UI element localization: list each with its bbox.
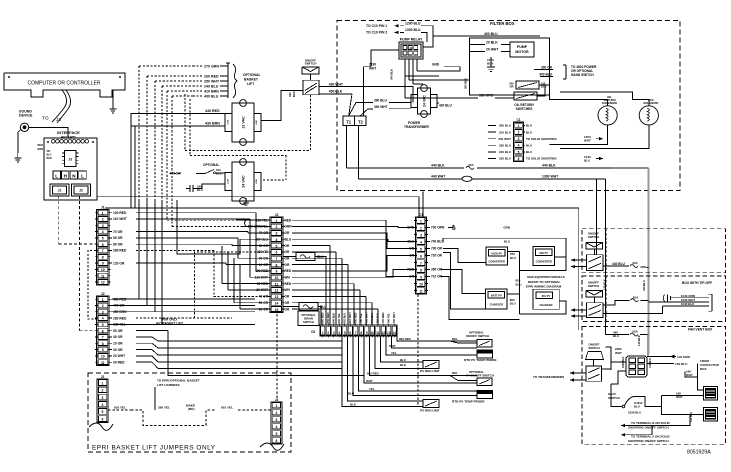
wires T1 T2 down to 440 rows: [347, 126, 359, 179]
svg-text:11: 11: [275, 282, 279, 286]
arrow terminal B: [621, 424, 652, 427]
svg-text:9: 9: [366, 331, 368, 335]
svg-text:9: 9: [102, 348, 104, 352]
svg-text:J2: J2: [101, 292, 105, 296]
svg-text:740 BLU: 740 BLU: [431, 240, 444, 244]
label OIL RETURN SWITCHES: [514, 103, 534, 111]
note TO EPRI OPTIONAL BASKET LIFT HARNESS: [157, 379, 200, 387]
svg-text:LIFT: LIFT: [247, 82, 255, 86]
bracket right of 1040 labels: [708, 294, 712, 311]
C1 mid right labels: [427, 226, 445, 279]
on/off switch 1 trapezoid: [586, 243, 603, 250]
optional drain switch label box: [298, 311, 319, 326]
connector C1 filter box: [514, 118, 524, 162]
svg-text:8: 8: [102, 255, 104, 259]
svg-text:REFER TO OPTIONAL: REFER TO OPTIONAL: [528, 280, 561, 284]
arrow to converter row1 a: [571, 258, 575, 261]
svg-text:90 OR: 90 OR: [113, 236, 123, 240]
terminal T2: [355, 116, 367, 126]
breaker 20A filter: [466, 163, 475, 169]
svg-text:GND: GND: [432, 63, 440, 67]
arrow 1240 BLU: [596, 157, 603, 160]
wire 400 BLU top: [433, 32, 540, 42]
svg-text:FAN VENT BOX: FAN VENT BOX: [688, 328, 713, 332]
wire 440 BLK with breaker: [347, 163, 613, 168]
plug connector 2: [704, 408, 718, 422]
wires to solenoids: [550, 85, 649, 149]
svg-text:8: 8: [276, 263, 278, 267]
svg-text:TO C10 PIN 2: TO C10 PIN 2: [366, 31, 387, 35]
labels RED GRN left of board: [37, 143, 52, 160]
svg-text:710 OR: 710 OR: [431, 275, 443, 279]
svg-text:CHARGER: CHARGER: [539, 303, 552, 307]
optional switch lower label: [466, 370, 494, 378]
svg-text:1: 1: [102, 381, 104, 385]
svg-text:10 OR: 10 OR: [113, 341, 123, 345]
svg-text:5: 5: [276, 244, 278, 248]
svg-text:BLU: BLU: [634, 404, 640, 408]
svg-text:2: 2: [420, 227, 422, 231]
switch 3 contact: [586, 366, 602, 381]
svg-text:340 BLK: 340 BLK: [390, 69, 394, 80]
svg-text:260 RED: 260 RED: [204, 74, 219, 78]
svg-text:10: 10: [419, 283, 423, 287]
wire bundle J2 lower to rtd cluster: [136, 331, 364, 376]
svg-text:440 BLU: 440 BLU: [642, 280, 646, 291]
svg-text:BLU: BLU: [285, 237, 292, 241]
converter box 800 pv: [533, 247, 555, 266]
arrow 140 GRN: [670, 355, 676, 359]
svg-text:7: 7: [102, 249, 104, 253]
svg-text:C10: C10: [408, 46, 413, 50]
wires converter row1 loop: [443, 238, 566, 270]
svg-text:11: 11: [419, 290, 423, 294]
svg-text:9: 9: [420, 276, 422, 280]
svg-text:6: 6: [518, 157, 520, 161]
svg-text:15: 15: [275, 308, 279, 312]
label 870 BLU: [510, 252, 516, 260]
label 180 WHT: [676, 391, 683, 399]
svg-text:240 BLU: 240 BLU: [499, 150, 511, 154]
svg-text:3: 3: [102, 396, 104, 400]
svg-text:BLU: BLU: [504, 240, 510, 244]
svg-text:TRANSFORMER: TRANSFORMER: [404, 125, 429, 129]
label TO C10 PIN 2: [366, 31, 387, 35]
svg-text:7: 7: [420, 262, 422, 266]
dashed vertical below C1 mid: [417, 295, 419, 407]
svg-text:1300 BLU: 1300 BLU: [405, 28, 421, 32]
breaker 20A fan: [630, 330, 639, 336]
svg-text:130 BLK: 130 BLK: [649, 358, 652, 368]
fan contactor block: [626, 356, 647, 377]
svg-text:2: 2: [102, 218, 104, 222]
svg-text:WHT: WHT: [584, 139, 591, 143]
wire feeder y207 to switch chain: [254, 208, 579, 330]
svg-text:MOTOR: MOTOR: [515, 50, 529, 54]
svg-text:2: 2: [276, 411, 278, 415]
svg-text:1: 1: [102, 211, 104, 215]
svg-text:11: 11: [101, 361, 105, 365]
svg-text:SWITCH: SWITCH: [588, 346, 599, 350]
svg-text:40 OR: 40 OR: [113, 335, 123, 339]
wire arrow row2 a: [571, 309, 587, 311]
svg-text:1: 1: [276, 219, 278, 223]
svg-text:7: 7: [355, 331, 357, 335]
gray bus wire: [647, 168, 649, 354]
svg-text:CONVERTER: CONVERTER: [489, 260, 505, 264]
inline connector 440 WHT: [462, 176, 472, 181]
svg-text:280 RED: 280 RED: [113, 316, 127, 320]
svg-text:J4: J4: [275, 213, 279, 217]
svg-text:13: 13: [387, 331, 391, 335]
C6 vertical pin labels: [320, 312, 396, 324]
svg-text:801 PV: 801 PV: [542, 294, 551, 298]
svg-text:6: 6: [420, 255, 422, 259]
label 1290 BLU: [400, 22, 433, 43]
C1 left wire labels: [488, 124, 511, 161]
connector J2 on board: [72, 184, 91, 196]
wires filter box into C1 top: [419, 191, 423, 217]
svg-text:270 GRN: 270 GRN: [204, 64, 219, 68]
svg-text:EPRI BASKET LIFT JUMPERS O: EPRI BASKET LIFT JUMPERS ONLY: [92, 445, 216, 452]
svg-text:5: 5: [420, 248, 422, 252]
svg-text:510 BLK: 510 BLK: [690, 412, 693, 422]
fuse breaker box lower: [283, 303, 327, 326]
inner dashed divider box2: [605, 276, 607, 322]
svg-text:10: 10: [370, 331, 374, 335]
label 20 WHT: [470, 48, 511, 52]
svg-text:RED: RED: [285, 282, 292, 286]
svg-text:1: 1: [518, 124, 520, 128]
svg-text:BLK: BLK: [400, 363, 407, 367]
svg-text:4: 4: [518, 144, 520, 148]
svg-text:RED: RED: [285, 218, 292, 222]
svg-text:800 RED: 800 RED: [353, 313, 357, 324]
svg-text:20 BLK: 20 BLK: [486, 40, 498, 44]
svg-text:TO TRANSFORMERS: TO TRANSFORMERS: [533, 375, 564, 379]
long wire across top y207 left part: [105, 207, 254, 209]
svg-text:BATT PV: BATT PV: [491, 294, 502, 298]
svg-text:380 YEL: 380 YEL: [158, 406, 170, 410]
svg-text:5: 5: [276, 432, 278, 436]
svg-text:860 RED: 860 RED: [320, 313, 324, 324]
J2 pin wire labels: [109, 297, 127, 364]
svg-text:11: 11: [101, 274, 105, 278]
svg-text:LINE: LINE: [256, 179, 258, 184]
svg-text:J2: J2: [79, 189, 83, 193]
svg-text:SWITCH: SWITCH: [303, 320, 314, 324]
svg-text:RED: RED: [38, 143, 44, 147]
svg-text:150 BLU: 150 BLU: [675, 362, 688, 366]
svg-text:120 OR: 120 OR: [113, 261, 125, 265]
svg-text:SOLENOID: SOLENOID: [643, 101, 658, 105]
svg-text:PUMP: PUMP: [517, 45, 528, 49]
switch 2 contact: [587, 303, 603, 318]
solid wire bundle to transformers: [131, 114, 225, 208]
box with tip-off dashed enclosure: [582, 276, 725, 322]
arrow to transformers b: [570, 378, 586, 381]
svg-text:OR: OR: [285, 301, 290, 305]
svg-text:420 BLU: 420 BLU: [439, 104, 452, 108]
epri jumper dashed wire: [108, 404, 271, 426]
svg-text:790 YEL: 790 YEL: [359, 313, 363, 324]
svg-text:4: 4: [338, 331, 340, 335]
C1 labels GRN mid: [503, 226, 510, 244]
arrow row2 b: [571, 314, 575, 317]
connector J4 epri: [271, 398, 282, 444]
svg-text:240 BLU: 240 BLU: [204, 84, 219, 88]
label 390 WHT: [374, 105, 411, 109]
wire 440 blu with breaker top fan box: [605, 331, 648, 339]
svg-text:12 VAC: 12 VAC: [241, 116, 245, 129]
svg-text:380 ORG: 380 ORG: [479, 94, 494, 98]
on/off switch 1 label: [588, 232, 599, 240]
svg-text:330 BLU: 330 BLU: [499, 144, 511, 148]
wire trapezoid to contact 2: [594, 297, 596, 303]
svg-text:750 RED: 750 RED: [381, 313, 385, 324]
svg-text:OR: OR: [285, 231, 290, 235]
svg-text:J4: J4: [275, 398, 279, 402]
connector J1 main harness: [95, 205, 111, 285]
label 820 BLU mid: [516, 279, 522, 287]
svg-text:400 BLU: 400 BLU: [539, 73, 552, 77]
svg-text:860 RED: 860 RED: [367, 371, 379, 375]
svg-text:400 BLU: 400 BLU: [484, 32, 498, 36]
svg-text:280 RED: 280 RED: [113, 249, 127, 253]
svg-text:810 WHT: 810 WHT: [348, 312, 352, 324]
svg-text:CHARGER: CHARGER: [490, 303, 503, 307]
transformer 24 VAC optional basket lift: [225, 159, 261, 205]
note FROM CONTACTOR BOX: [700, 359, 720, 371]
wires switch to T1 T2: [261, 74, 413, 121]
wires pump relay: [371, 42, 470, 98]
on/off switch 3: [586, 343, 604, 360]
charger box batt pv: [486, 289, 508, 309]
end cap 730 ORN: [448, 225, 455, 230]
svg-text:6: 6: [276, 251, 278, 255]
svg-text:RTD PV TEMP PROBE: RTD PV TEMP PROBE: [464, 358, 497, 362]
svg-text:J1: J1: [58, 189, 62, 193]
svg-text:100 RED: 100 RED: [113, 211, 127, 215]
svg-text:GRN: GRN: [503, 226, 510, 230]
svg-text:L: L: [55, 173, 58, 178]
wires contactor left: [611, 362, 626, 384]
svg-text:SHORTING ON/OFF SWITCH: SHORTING ON/OFF SWITCH: [628, 439, 669, 443]
svg-text:OR: OR: [285, 263, 290, 267]
pump motor: [510, 42, 534, 57]
svg-text:3: 3: [276, 418, 278, 422]
svg-text:7: 7: [276, 257, 278, 261]
svg-text:OR: OR: [285, 256, 290, 260]
pump motor inner box: [470, 38, 550, 95]
terminal T1: [343, 116, 355, 126]
wire bundle J4 to C1 and C6: [292, 220, 416, 325]
svg-text:20 WHT: 20 WHT: [486, 48, 499, 52]
svg-text:8: 8: [102, 342, 104, 346]
svg-text:SWITCH: SWITCH: [588, 284, 599, 288]
svg-text:TO: TO: [42, 116, 49, 122]
svg-text:FILTER BOX: FILTER BOX: [490, 21, 515, 26]
svg-text:2: 2: [327, 331, 329, 335]
svg-text:LIFT HARNESS: LIFT HARNESS: [157, 383, 180, 387]
connector J4 mid: [268, 213, 284, 312]
svg-text:110 WHT: 110 WHT: [113, 217, 127, 221]
svg-text:BLU: BLU: [526, 144, 532, 148]
terminal blocks L H N L: [53, 171, 86, 179]
svg-text:BLU: BLU: [516, 282, 522, 286]
svg-text:HAND SWITCH: HAND SWITCH: [571, 73, 594, 77]
oil return switch 1: [509, 81, 546, 89]
wire 2190 to down: [363, 67, 371, 116]
svg-text:TO C10 PIN 1: TO C10 PIN 1: [366, 24, 387, 28]
on/off switch 2 trapezoid: [586, 291, 603, 298]
ground under sound device: [14, 153, 21, 162]
ground symbol right of controller: [110, 104, 117, 113]
svg-text:440 BLK: 440 BLK: [431, 163, 445, 167]
svg-text:LINE: LINE: [256, 120, 258, 125]
wire 440 wht feeder down: [604, 179, 606, 335]
wires switch3: [594, 347, 612, 369]
svg-text:850 RED: 850 RED: [326, 313, 330, 324]
svg-text:BLU: BLU: [526, 150, 532, 154]
svg-text:11: 11: [376, 331, 380, 335]
wire contact2 lower loop: [603, 306, 663, 314]
svg-text:9: 9: [102, 262, 104, 266]
svg-text:ON/OFF SWITCH: ON/OFF SWITCH: [466, 334, 489, 338]
svg-text:3: 3: [420, 234, 422, 238]
diagonal wire into J4 pin1: [236, 219, 270, 221]
label 420 BLU: [437, 103, 452, 108]
svg-text:OPTIONAL: OPTIONAL: [243, 73, 261, 77]
svg-text:820 BLU: 820 BLU: [342, 313, 346, 324]
svg-text:3: 3: [102, 224, 104, 228]
connector J1 on board: [50, 184, 69, 196]
svg-text:BLK: BLK: [350, 402, 357, 406]
wire epri note down: [154, 387, 156, 410]
wire 440 WHT: [359, 174, 606, 179]
svg-text:760 BLK: 760 BLK: [375, 313, 379, 324]
svg-text:BLU: BLU: [400, 358, 406, 362]
wire 24vac transformer ground down: [243, 198, 249, 205]
svg-text:6: 6: [102, 417, 104, 421]
svg-text:230 BLU: 230 BLU: [499, 157, 511, 161]
arrow to C10 pin 1: [395, 24, 399, 27]
label 20 BLK: [470, 40, 511, 44]
svg-text:860 RED: 860 RED: [399, 337, 411, 341]
svg-text:WHT: WHT: [615, 351, 622, 355]
label 1300 BLU: [400, 28, 427, 42]
svg-text:WHT: WHT: [686, 373, 693, 377]
svg-text:SHORTING ON/OFF SWITCH: SHORTING ON/OFF SWITCH: [628, 425, 669, 429]
label G4312 BLU: [634, 401, 643, 408]
label 2190 WHT: [369, 63, 376, 71]
wires to plugs: [652, 396, 704, 426]
svg-text:350 OR: 350 OR: [431, 268, 443, 272]
label TO C10 PIN 1: [366, 24, 387, 28]
arrow to C10 pin 2: [395, 31, 399, 34]
svg-text:14: 14: [392, 331, 396, 335]
svg-text:50 OR: 50 OR: [113, 329, 123, 333]
svg-text:DEVICE: DEVICE: [19, 114, 33, 118]
svg-text:WHT: WHT: [389, 344, 396, 348]
sound device circle: [20, 123, 28, 131]
svg-text:(BK): (BK): [188, 407, 195, 411]
svg-text:SWITCH: SWITCH: [588, 235, 599, 239]
svg-text:4: 4: [276, 238, 278, 242]
svg-text:A/C BASKET LIFT: A/C BASKET LIFT: [156, 322, 183, 326]
svg-text:BLU: BLU: [584, 158, 590, 162]
svg-text:SWITCHES: SWITCHES: [516, 107, 533, 111]
svg-text:430 WHT: 430 WHT: [329, 82, 344, 86]
dashed vertical J4 epri to J4 mid: [276, 314, 278, 400]
rtd probe head upper: [477, 350, 493, 358]
arrow terminal A: [621, 433, 652, 436]
svg-text:830 YEL: 830 YEL: [337, 313, 341, 324]
dashed routing under 12vac transformer: [185, 94, 311, 180]
wavy break J4 epri: [260, 443, 284, 450]
svg-text:6: 6: [102, 243, 104, 247]
svg-text:TO SOLID SHORTING: TO SOLID SHORTING: [526, 137, 557, 141]
C1 mid left labels: [407, 226, 415, 279]
svg-text:WH: WH: [285, 276, 291, 280]
svg-text:GRN: GRN: [285, 225, 293, 229]
svg-text:REL: REL: [452, 371, 458, 375]
label OPTIONAL BASKET LIFT: [243, 73, 261, 86]
wire 440 BLU breaker row: [603, 262, 649, 268]
dashed jumper 280 RED J1 to J2: [88, 250, 96, 319]
svg-text:730 WHT: 730 WHT: [392, 312, 396, 324]
svg-text:30 OR: 30 OR: [113, 348, 123, 352]
wire sound device to ground: [18, 130, 21, 154]
svg-text:T2: T2: [358, 119, 364, 124]
bracket to hand switch: [563, 65, 597, 79]
svg-text:5: 5: [518, 150, 520, 154]
brace optional basket lift: [233, 64, 237, 98]
svg-text:12: 12: [101, 281, 105, 285]
svg-text:EPRI WIRING DIAGRAM: EPRI WIRING DIAGRAM: [526, 284, 562, 288]
pump relay: [399, 38, 423, 60]
switch 1 contact: [587, 255, 603, 271]
staircase elbows to J4 lower pins: [222, 246, 270, 309]
breaker 20A tipoff: [631, 295, 640, 301]
svg-text:SOLENOID: SOLENOID: [602, 101, 617, 105]
wire arrow row1 b: [571, 266, 587, 268]
svg-text:250 WHT: 250 WHT: [498, 137, 511, 141]
wires into 24VAC transformer: [196, 173, 225, 189]
svg-text:LOW: LOW: [228, 179, 230, 184]
svg-text:J1: J1: [101, 205, 105, 209]
svg-text:300 BLU: 300 BLU: [499, 124, 511, 128]
svg-text:HIGH PV: HIGH PV: [491, 252, 502, 256]
svg-text:CONVERTER: CONVERTER: [536, 259, 552, 263]
wire fanout C6 to rtd cluster: [342, 336, 477, 407]
optional on-off switch upper label: [466, 330, 489, 338]
svg-text:3: 3: [518, 137, 520, 141]
wires from contactor right: [685, 364, 704, 391]
svg-text:2: 2: [518, 131, 520, 135]
svg-text:SWITCH: SWITCH: [305, 62, 317, 66]
svg-text:1: 1: [102, 298, 104, 302]
connector C1 mid: [414, 213, 428, 294]
svg-text:C6: C6: [311, 330, 315, 334]
capacitor symbol: [186, 185, 203, 193]
svg-text:350 BLU: 350 BLU: [464, 78, 468, 89]
label 390 BLU: [374, 99, 411, 103]
svg-text:BLU: BLU: [526, 130, 532, 134]
svg-text:390 OR: 390 OR: [541, 66, 553, 70]
svg-text:310 BLU: 310 BLU: [499, 130, 511, 134]
wire bundle J2 upper to basket lift verticals: [112, 200, 270, 324]
